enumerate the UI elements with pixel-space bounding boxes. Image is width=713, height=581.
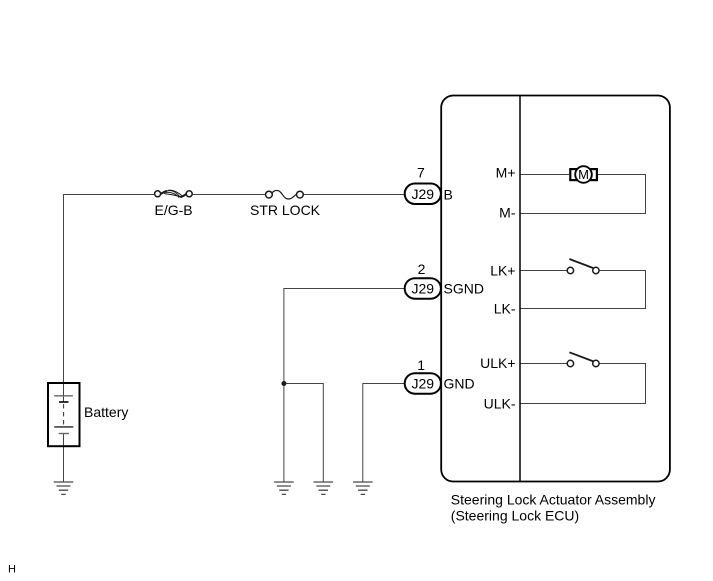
svg-text:2: 2 bbox=[418, 261, 426, 277]
svg-text:J29: J29 bbox=[412, 376, 435, 392]
svg-text:1: 1 bbox=[417, 357, 425, 373]
svg-text:Battery: Battery bbox=[84, 404, 128, 420]
svg-text:B: B bbox=[444, 187, 453, 203]
svg-text:M: M bbox=[578, 167, 589, 182]
svg-text:ULK+: ULK+ bbox=[480, 355, 515, 371]
svg-text:E/G-B: E/G-B bbox=[155, 202, 193, 218]
svg-text:SGND: SGND bbox=[444, 281, 484, 297]
svg-text:J29: J29 bbox=[412, 281, 435, 297]
svg-text:H: H bbox=[8, 563, 16, 575]
svg-text:LK+: LK+ bbox=[490, 263, 515, 279]
svg-text:LK-: LK- bbox=[494, 301, 516, 317]
svg-text:GND: GND bbox=[444, 376, 475, 392]
svg-text:7: 7 bbox=[417, 165, 425, 181]
svg-text:M-: M- bbox=[499, 204, 516, 220]
svg-text:J29: J29 bbox=[412, 186, 435, 202]
svg-text:M+: M+ bbox=[496, 164, 516, 180]
svg-text:STR LOCK: STR LOCK bbox=[250, 202, 321, 218]
svg-text:(Steering Lock ECU): (Steering Lock ECU) bbox=[451, 507, 579, 523]
svg-text:ULK-: ULK- bbox=[484, 396, 516, 412]
svg-text:Steering Lock Actuator Assembl: Steering Lock Actuator Assembly bbox=[451, 492, 656, 508]
